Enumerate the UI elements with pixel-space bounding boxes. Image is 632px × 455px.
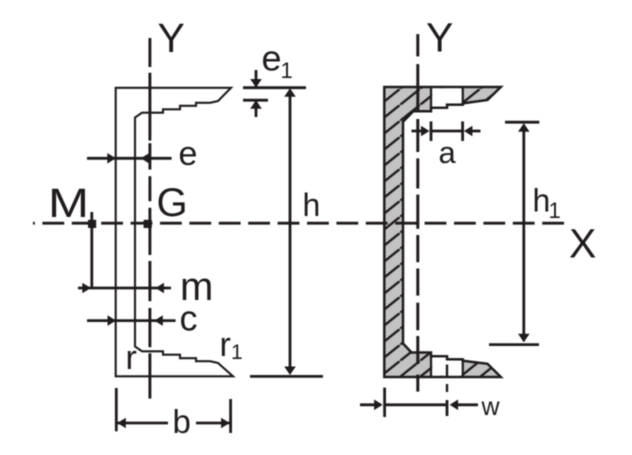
dimension c line [87,315,176,326]
svg-text:1: 1 [231,341,243,364]
channel section right figure hatched [384,87,501,377]
svg-text:r: r [220,326,231,364]
dimension w [360,365,478,418]
h bottom extension line [250,375,323,378]
svg-text:Y: Y [426,14,453,60]
dimension h1 [489,122,539,344]
dimension h line [284,88,296,375]
dimension e1 arrows [250,70,262,117]
svg-text:c: c [180,298,198,339]
white notch bottom [431,356,463,376]
svg-text:w: w [481,393,501,421]
channel outline left figure [116,88,233,377]
G marker square [144,220,152,228]
svg-text:G: G [157,181,188,225]
Y axis right [416,34,419,392]
svg-text:b: b [173,403,191,440]
dimension m line [78,283,171,294]
svg-text:h: h [303,187,321,223]
svg-text:r: r [126,339,137,377]
svg-text:M: M [48,180,89,226]
dimension a [412,121,481,141]
Y axis left [148,38,151,399]
svg-text:1: 1 [281,58,293,83]
e1 bottom extension line [243,99,268,102]
svg-text:e: e [179,135,198,173]
M extension line [90,212,93,289]
white notch top [431,88,463,108]
X axis [33,222,565,225]
svg-text:X: X [569,220,596,266]
M marker square [88,220,96,228]
e1 top extension line [243,86,306,89]
svg-text:a: a [439,135,457,170]
dimension e line [87,153,172,164]
svg-text:e: e [262,38,282,79]
dimension b [116,388,230,433]
svg-text:Y: Y [158,15,185,61]
svg-text:1: 1 [549,198,561,223]
